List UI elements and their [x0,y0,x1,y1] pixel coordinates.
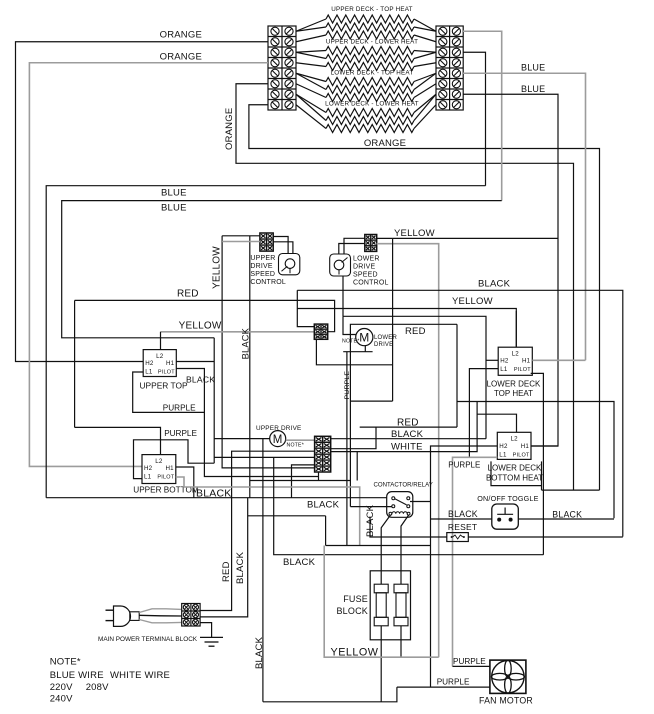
label BLACK vertical 1 [241,327,251,359]
wire motor M2 box [343,351,372,353]
svg-text:208V: 208V [86,682,109,693]
svg-text:RESET: RESET [448,522,477,532]
wire gray yellow box [324,546,439,658]
svg-text:L2: L2 [156,353,164,360]
svg-text:ORANGE: ORANGE [364,138,406,149]
wire reset right [468,536,623,538]
connector J1 (upper drive speed control) [260,233,273,251]
wire h320 (to LOWER DECK TOP HEAT H2) [343,316,486,438]
wire BLACK bus (blue1 to contactor C1) [46,497,387,499]
svg-text:UPPER DRIVE: UPPER DRIVE [256,425,302,432]
wire H1 bottom heat [531,445,558,447]
label LOWER DECK - LOWER HEAT [325,101,419,108]
wire fuse left down [380,626,382,702]
wire gray J2 (down right column) [377,244,439,658]
svg-text:ON/OFF TOGGLE: ON/OFF TOGGLE [477,494,538,503]
label YELLOW 1 [394,228,435,239]
svg-text:UPPER TOP: UPPER TOP [140,381,189,391]
wire RED drop (power row1) [200,451,315,610]
wire v346 purple (motor drop) [346,352,348,546]
wire M1 left [214,438,270,440]
svg-text:ORANGE: ORANGE [160,30,202,41]
svg-text:BLOCK: BLOCK [336,606,368,616]
svg-text:H1: H1 [522,358,531,365]
wire h324 (to contactor column) [350,324,457,506]
svg-text:FUSE: FUSE [343,594,368,604]
label RED mid [397,417,419,428]
heating element E4 (zigzag) [296,47,436,55]
wire H2 bottom heat (to toggle and fan) [431,446,498,687]
wire TB2 row3 (to BLUE line 1) [463,52,486,185]
switch SW1 (on/off toggle) [492,504,519,529]
note text [50,657,170,705]
wire RED upper (to power terminal) [75,300,335,331]
heating element E12 (zigzag) [296,105,436,133]
svg-text:LOWER: LOWER [353,256,380,263]
svg-text:PURPLE: PURPLE [437,677,470,686]
wire v222 (J1 to connector J4) [222,236,315,468]
wire fuse right down [400,626,402,657]
label BLACK toggle left [448,509,478,519]
label YELLOW vertical [212,246,223,289]
heating element E8 (zigzag) [296,73,436,93]
wire cord 3 [139,620,182,623]
svg-text:MAIN POWER TERMINAL BLOCK: MAIN POWER TERMINAL BLOCK [98,636,198,643]
wire v344 above [342,276,344,316]
svg-text:H2: H2 [499,443,508,450]
label RED vertical [221,561,232,582]
label YELLOW big [331,647,379,659]
svg-text:L1: L1 [145,369,153,376]
svg-text:L2: L2 [511,436,519,443]
heating element E6 (zigzag) [296,63,436,71]
svg-text:PILOT: PILOT [513,452,530,458]
svg-text:BLUE WIRE: BLUE WIRE [50,670,104,681]
wire h364 (connector J3 to v392) [316,339,392,365]
svg-text:BLACK: BLACK [552,510,582,520]
wire gray BLUE right 1 (TB2 row5 to LOWER DECK TOP HEAT H1) [463,73,586,360]
svg-text:H2: H2 [144,465,153,472]
label FAN MOTOR [479,696,533,706]
svg-text:TOP HEAT: TOP HEAT [494,389,533,398]
svg-text:220V: 220V [50,682,73,693]
wire relay coil left to fuse [381,515,390,584]
label LOWER DRIVE M2 [374,335,397,348]
svg-text:FAN MOTOR: FAN MOTOR [479,696,533,706]
svg-text:SPEED: SPEED [250,271,275,278]
svg-text:DRIVE: DRIVE [353,264,376,271]
svg-text:BLACK: BLACK [241,327,251,359]
label YELLOW 3 [179,321,222,332]
wire v262 (motor drop to fan line) [262,439,264,702]
wire PURPLE fan 1 [453,665,490,667]
wire YELLOW top (J2 to right) [393,237,558,239]
svg-text:PURPLE: PURPLE [163,404,196,413]
svg-text:PILOT: PILOT [157,475,174,481]
svg-text:BLUE: BLUE [521,63,545,73]
heating element E3 (zigzag) [296,31,436,42]
svg-text:UPPER DECK - LOWER HEAT: UPPER DECK - LOWER HEAT [326,39,418,46]
label LOWER DECK - TOP HEAT [331,70,414,77]
wire UPPER TOP L2 [160,332,162,350]
connector J4 (upper drive motor) [315,436,331,472]
svg-text:H1: H1 [165,465,174,472]
wire UPPER TOP H1 [176,361,214,363]
wire J4 h448 [331,427,376,449]
thermostat LOWER DECK TOP HEAT [498,347,532,375]
wire v214 (yellow drop) [213,338,215,463]
wire pilot bus bottom [542,489,600,491]
label BLUE right 2 [521,84,545,94]
svg-text:L1: L1 [144,474,152,481]
svg-text:ORANGE: ORANGE [160,52,202,63]
fan motor FM1 [490,660,526,693]
svg-text:DRIVE: DRIVE [250,263,273,270]
label FUSE BLOCK [336,594,368,616]
svg-text:WHITE: WHITE [391,442,423,453]
wire J1 to R1 b [273,242,293,254]
svg-text:LOWER DECK - TOP HEAT: LOWER DECK - TOP HEAT [331,70,414,77]
svg-text:BLUE: BLUE [161,203,187,214]
terminal block TB2 (heater right) [436,26,463,110]
wire relay coil right to fuse [401,515,409,584]
svg-text:WHITE WIRE: WHITE WIRE [110,670,170,681]
label NOTE* M1 [287,443,304,449]
connector J3 (center) [314,324,327,339]
wire gray to J1 [222,241,260,243]
wire drop to connector J3 [297,290,314,326]
wire UPPER TOP loop (L1-PILOT) [133,369,205,413]
wire M1 right gray [286,439,315,441]
label ORANGE 2 [160,52,202,63]
wire H2 top heat [486,359,498,361]
terminal block TB3 (main power) [182,604,200,627]
svg-text:PURPLE: PURPLE [453,657,486,666]
wire J4 stub down [318,472,320,481]
svg-text:CONTROL: CONTROL [353,280,389,287]
svg-text:YELLOW: YELLOW [331,647,379,659]
wire v204 (loop drop to J4) [204,412,318,476]
label box LOWER DECK BOTTOM HEAT [491,461,542,490]
wire BLUE line 2 (to UPPER TOP H1 via yellow) [62,201,502,338]
motor M1 (upper drive) [270,431,286,447]
svg-text:DRIVE: DRIVE [374,342,393,348]
wire contactor C3 in [350,506,391,508]
label RESET [448,522,477,532]
wire v392 (yellow drop) [392,238,394,401]
label BLACK (upper top) [186,375,215,385]
svg-text:ORANGE: ORANGE [224,108,235,150]
svg-text:BLACK: BLACK [478,279,511,290]
wire reset feed left [370,517,447,538]
svg-text:H2: H2 [145,360,154,367]
svg-text:BLUE: BLUE [161,188,187,199]
wire toggle right [518,518,614,520]
wire J2 left b [339,244,365,255]
svg-text:PILOT: PILOT [158,370,175,376]
label BLUE right 1 [521,63,545,73]
wire PURPLE (to UPPER BOTTOM L2) [75,427,161,454]
label RED a [177,289,199,300]
wire YELLOW 2 (to LOWER DECK TOP HEAT L2) [297,309,516,348]
svg-text:CONTROL: CONTROL [250,279,286,286]
svg-text:240V: 240V [50,694,73,705]
svg-text:L2: L2 [155,458,163,465]
reset breaker RB1 [447,533,469,542]
svg-text:UPPER DECK - TOP HEAT: UPPER DECK - TOP HEAT [331,6,412,13]
wire ORANGE 2 gray (TB1 row4 to UPPER BOTTOM H2) [29,63,268,467]
svg-text:M: M [359,331,369,345]
svg-text:H1: H1 [521,443,530,450]
label LOWER DECK TOP HEAT [487,380,541,399]
wire RED mid (contactor feed) [360,426,457,428]
wire power row2 drop [200,498,248,617]
speed control R1 (upper drive) [279,254,300,275]
thermostat LOWER DECK BOTTOM HEAT [497,432,531,459]
thermostat UPPER BOTTOM [142,455,176,484]
label BLACK (upper bottom) [196,488,231,500]
svg-text:SPEED: SPEED [353,272,378,279]
heating element E11 (zigzag) [296,94,436,124]
wire black line (speed control to reset column) [297,290,623,536]
wire v249 (J1 to contactor bus) [249,236,251,498]
wire PILOT top heat (to black bus) [531,373,544,554]
thermostat UPPER TOP [143,350,176,377]
svg-text:PURPLE: PURPLE [344,371,351,400]
svg-text:H2: H2 [500,358,509,365]
svg-text:LOWER DECK: LOWER DECK [487,380,541,389]
label BLACK vertical relay [365,504,376,537]
wire H1 top heat gray [532,359,585,361]
svg-text:CONTACTOR/RELAY: CONTACTOR/RELAY [374,482,433,489]
label LOWER DRIVE SPEED CONTROL [353,256,389,287]
svg-text:L1: L1 [499,451,507,458]
wire BLACK bottom bus [274,457,544,554]
relay K1 (contactor) [387,492,413,518]
svg-text:YELLOW: YELLOW [394,228,435,239]
svg-text:BLACK: BLACK [254,636,265,669]
wire UPPER BOTTOM L1 loop [134,440,215,479]
svg-text:YELLOW: YELLOW [212,246,223,289]
svg-text:L1: L1 [500,366,508,373]
label WHITE [391,442,423,453]
wire gray UPPER BOTTOM PILOT [176,477,360,546]
heating element E5 (zigzag) [296,52,436,62]
svg-text:NOTE*: NOTE* [287,443,304,449]
wire h545 (to fan purple column) [326,545,431,547]
wire ORANGE bottom (TB1 row8 to lower deck pilot) [249,105,600,490]
wire v325 drop [325,516,327,546]
label PURPLE vertical [344,371,351,400]
wire ground lead [200,623,212,638]
svg-text:BLACK: BLACK [283,557,316,568]
label NOTE* M2 [342,339,359,345]
wire gray YELLOW (upper top L2 to connector J3) [161,331,315,333]
wire v74 (red-purple link) [74,300,76,427]
wire white drop to contactor bus [356,452,358,481]
heating element E9 (zigzag) [296,84,436,102]
wire to J1 top [222,235,260,237]
wire h457 link [214,456,314,458]
wire fan bottom path [263,687,397,702]
svg-text:BOTTOM HEAT: BOTTOM HEAT [486,474,543,483]
wire L2 bottom heat link [477,414,516,433]
svg-text:M: M [273,434,283,446]
svg-text:BLACK: BLACK [235,551,246,584]
svg-text:YELLOW: YELLOW [179,321,222,332]
label BLACK bottom [283,557,316,568]
label PURPLE 3 [448,461,480,470]
wire h401 stub [350,400,392,402]
wire UPPER BOTTOM H1 [176,467,194,498]
wire motor feed left [343,316,356,334]
heating element E1 (zigzag) [296,15,436,31]
wire L1 bottom heat PURPLE gray [453,457,498,666]
svg-text:LOWER DECK - LOWER HEAT: LOWER DECK - LOWER HEAT [325,101,419,108]
label MAIN POWER TERMINAL BLOCK [98,636,198,643]
label UPPER DRIVE M1 [256,425,302,432]
wire J1 to R1 a [273,237,288,254]
svg-text:BLUE: BLUE [521,84,545,94]
wire BLUE line 1 (down to contactor feed) [46,186,485,498]
wire PURPLE fan 2 [397,686,490,688]
svg-text:PURPLE: PURPLE [164,429,197,438]
wire J2 left a [344,238,365,254]
svg-text:YELLOW: YELLOW [452,296,493,307]
label LOWER DECK BOTTOM HEAT [486,464,543,483]
svg-text:NOTE*: NOTE* [342,339,359,345]
svg-text:RED: RED [177,289,199,300]
label BLACK vertical 2 [254,636,265,669]
wire BLUE right 2 (TB2 row7 to LOWER DECK BOTTOM HEAT H1) [463,94,558,446]
svg-text:H1: H1 [166,360,175,367]
heating element E2 (zigzag) [296,23,436,31]
wire BLACK line (J4 to lower deck H2 drop) [331,438,486,440]
svg-text:RED: RED [405,326,426,337]
label PURPLE 1 [163,404,196,413]
label UPPER TOP [140,381,189,391]
wire L2 top heat up [515,311,517,347]
label RED b [405,326,426,337]
wire cord 1 [139,609,182,613]
label PURPLE fan 1 [453,657,486,666]
wire ORANGE 1 (TB1 row2 to UPPER TOP H2) [16,42,269,362]
wire gray TB2 row1 (to BLUE line 2 left) [463,31,502,200]
label BLACK top [478,279,511,290]
speed control R2 (lower drive) [330,254,351,276]
svg-text:RED: RED [221,561,232,582]
label ON/OFF TOGGLE [477,494,538,503]
wire contactor C3 feed [250,480,351,482]
wire L1 top heat [469,369,498,458]
label BLACK mid [391,429,424,440]
wire cord 2 [139,614,182,617]
label PURPLE 2 [164,429,197,438]
svg-text:NOTE*: NOTE* [50,657,81,668]
heating element E10 (zigzag) [296,94,436,116]
wire from TB1 row6 (down right to lower deck pilot column) [236,84,574,490]
wire h515 [248,515,326,517]
svg-text:PILOT: PILOT [514,367,531,373]
label BLACK bus [307,500,340,511]
wire WHITE (J4 to L2 lower bottom link) [331,402,477,452]
terminal block TB1 (heater left) [268,26,296,110]
fuse block F1 F2 [370,571,410,640]
svg-text:BLACK: BLACK [448,509,478,519]
motor M2 (lower drive) [356,329,373,346]
svg-text:L2: L2 [512,350,520,357]
svg-text:BLACK: BLACK [186,375,215,385]
label UPPER DRIVE SPEED CONTROL [250,255,286,286]
wire motor M2 bottom [364,346,366,352]
ground symbol [200,637,223,646]
power plug PL1 [106,606,140,626]
label UPPER BOTTOM [133,486,199,495]
label UPPER DECK - TOP HEAT [331,6,412,13]
label ORANGE 1 [160,30,202,41]
wire h401 (pilot top heat link) [457,402,614,519]
label ORANGE vertical [224,108,235,150]
wire J2 right stub [377,237,393,239]
wire toggle left [431,518,492,520]
svg-text:LOWER: LOWER [374,335,397,341]
svg-text:BLACK: BLACK [391,429,424,440]
label YELLOW 2 [452,296,493,307]
svg-text:LOWER DECK: LOWER DECK [488,464,542,473]
svg-text:BLACK: BLACK [307,500,340,511]
label BLUE 1 [161,203,187,214]
label BLACK vertical 3 [235,551,246,584]
label BLUE 2 [161,188,187,199]
heating element E7 (zigzag) [296,73,436,85]
svg-text:UPPER: UPPER [250,255,275,262]
wire v457 [456,324,458,427]
wire contactor C2 out [410,501,431,503]
wire J4 row5 to black bus [292,465,315,498]
label ORANGE 3 [364,138,406,149]
label CONTACTOR/RELAY [374,482,433,489]
connector J2 (lower drive speed control) [365,235,377,252]
label PURPLE fan 2 [437,677,470,686]
svg-text:PURPLE: PURPLE [448,461,480,470]
label UPPER DECK - LOWER HEAT [326,39,418,46]
label BLACK toggle right [552,510,582,520]
